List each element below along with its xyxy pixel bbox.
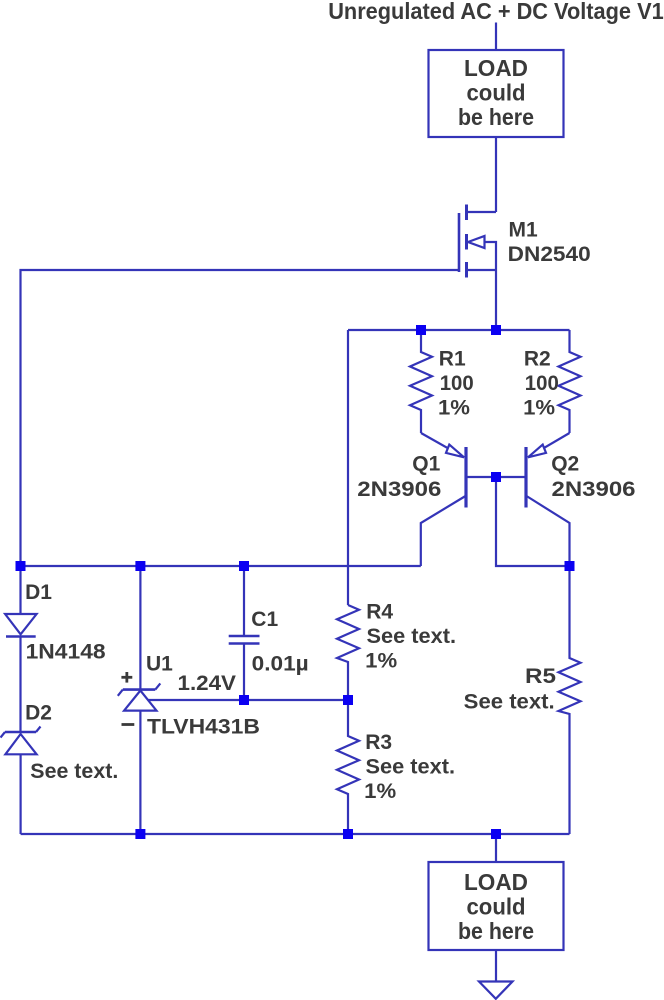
svg-text:R5: R5 — [525, 665, 556, 688]
svg-text:1%: 1% — [365, 650, 397, 673]
load box top — [429, 50, 564, 137]
shunt regulator U1 tick left — [118, 690, 123, 696]
svg-text:D1: D1 — [25, 581, 52, 604]
diode D1 triangle — [5, 614, 36, 634]
node junction R4 R3 ref — [343, 695, 353, 705]
node junction R1 top — [416, 325, 426, 335]
label U1 plus sign — [121, 676, 132, 679]
wire U1 cathode branch — [139, 566, 141, 690]
resistor R5 — [559, 566, 581, 834]
svg-text:100: 100 — [525, 372, 559, 395]
svg-text:1%: 1% — [523, 397, 555, 420]
node junction bases — [491, 472, 501, 482]
transistor Q1 emitter wire — [421, 433, 464, 457]
svg-text:LOAD: LOAD — [464, 55, 528, 81]
resistor R1 — [410, 330, 432, 433]
wire R4 branch vertical — [347, 330, 349, 605]
svg-text:1%: 1% — [364, 780, 396, 803]
svg-text:could: could — [467, 894, 526, 920]
svg-text:2N3906: 2N3906 — [552, 478, 636, 501]
svg-text:Q2: Q2 — [551, 453, 579, 476]
wire M1 gate to left rail — [21, 270, 460, 566]
wire V1 input to top load box — [495, 23, 497, 51]
transistor Q1 base bar — [464, 447, 467, 508]
svg-text:1N4148: 1N4148 — [26, 641, 106, 664]
svg-text:LOAD: LOAD — [464, 869, 528, 895]
transistor M1 channel bar top — [465, 205, 468, 221]
transistor Q2 collector wire — [527, 496, 570, 566]
node junction M1 source — [491, 325, 501, 335]
wire base rail Q1-Q2 — [466, 476, 526, 478]
svg-text:R3: R3 — [365, 731, 392, 754]
wire top rail node A — [348, 329, 570, 331]
node junction load bottom — [491, 829, 501, 839]
diode D2 zener tick left — [1, 732, 6, 738]
capacitor C1 bottom lead — [243, 644, 245, 701]
svg-text:2N3906: 2N3906 — [357, 478, 441, 501]
svg-text:be here: be here — [458, 918, 534, 944]
diode D2 triangle — [5, 734, 36, 754]
capacitor C1 top lead — [243, 566, 245, 636]
diode D1 anode lead — [19, 566, 21, 614]
transistor M1 channel bar middle — [465, 234, 468, 250]
node junction U1 top — [135, 561, 145, 571]
transistor M1 DN2540 drain lead — [467, 211, 497, 213]
transistor M1 channel bar bottom — [465, 262, 468, 278]
wire bottom rail to load box — [495, 834, 497, 862]
svg-text:0.01µ: 0.01µ — [252, 653, 309, 676]
svg-text:R4: R4 — [366, 601, 393, 624]
capacitor C1 bottom plate — [229, 642, 260, 645]
svg-text:Q1: Q1 — [412, 453, 440, 476]
svg-text:1%: 1% — [438, 397, 470, 420]
load box bottom — [429, 862, 564, 950]
node junction Q2 collector R5 — [565, 561, 575, 571]
resistor R2 — [559, 330, 581, 433]
svg-text:C1: C1 — [251, 608, 278, 631]
svg-text:R2: R2 — [524, 348, 551, 371]
node junction C1 bottom — [239, 695, 249, 705]
node junction R3 bottom rail — [343, 829, 353, 839]
diode D2 zener tick right — [36, 727, 41, 733]
svg-text:U1: U1 — [146, 653, 173, 676]
wire bases down to node B — [496, 477, 570, 566]
svg-text:D2: D2 — [25, 702, 52, 725]
wire D2 to bottom rail — [20, 754, 22, 834]
wire U1 reference to divider — [148, 699, 348, 701]
svg-text:M1: M1 — [509, 219, 538, 242]
transistor Q2 emitter arrow — [528, 445, 546, 458]
node junction U1 anode rail — [135, 829, 145, 839]
transistor M1 bulk lead — [467, 269, 497, 271]
shunt regulator U1 tick right — [155, 683, 160, 689]
wire load box to M1 drain — [495, 137, 497, 212]
ground — [479, 982, 513, 999]
resistor R4 — [337, 605, 359, 700]
shunt regulator U1 triangle — [124, 691, 156, 711]
transistor M1 source arrow — [468, 236, 485, 248]
svg-text:R1: R1 — [439, 348, 466, 371]
wire bottom rail — [21, 833, 570, 835]
diode D2 cathode bar — [5, 731, 36, 734]
label U1 minus sign — [122, 723, 135, 726]
transistor M1 source lead — [485, 242, 497, 330]
resistor R3 — [337, 700, 359, 834]
transistor Q2 emitter wire — [528, 433, 570, 457]
svg-text:DN2540: DN2540 — [508, 243, 591, 266]
svg-text:100: 100 — [440, 372, 474, 395]
svg-text:TLVH431B: TLVH431B — [147, 716, 260, 739]
svg-text:See text.: See text. — [367, 625, 457, 648]
shunt regulator U1 cathode bar — [123, 688, 156, 691]
transistor Q2 base bar — [524, 447, 527, 508]
svg-text:Unregulated AC + DC Voltage V1: Unregulated AC + DC Voltage V1 — [328, 0, 664, 24]
transistor Q1 emitter arrow — [446, 445, 464, 458]
diode D1 cathode bar — [6, 635, 36, 638]
svg-text:1.24V: 1.24V — [178, 672, 237, 695]
wire U1 anode to bottom rail — [139, 711, 141, 834]
svg-text:See text.: See text. — [366, 756, 456, 779]
node junction C1 top — [239, 561, 249, 571]
wire load box to ground — [495, 950, 497, 982]
wire D1 to D2 — [19, 637, 21, 733]
svg-text:See text.: See text. — [30, 760, 118, 783]
transistor Q1 collector wire — [421, 496, 466, 566]
capacitor C1 top plate — [229, 635, 260, 638]
svg-text:could: could — [467, 80, 526, 106]
transistor M1 gate bar — [458, 213, 461, 272]
svg-text:be here: be here — [458, 104, 534, 130]
svg-text:See text.: See text. — [464, 691, 555, 714]
node junction gate D1 — [16, 561, 26, 571]
wire left rail horizontal — [21, 565, 421, 567]
